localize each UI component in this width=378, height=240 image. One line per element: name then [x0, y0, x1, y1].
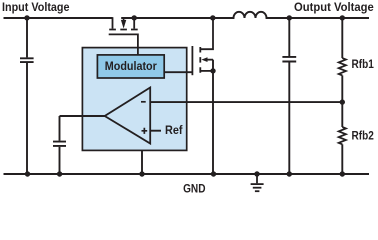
- node: C_out ground junction: [287, 171, 292, 176]
- transistor Q1 channel bars: [109, 29, 138, 31]
- capacitor C_in (input) branch wire upper: [26, 18, 28, 57]
- transistor Q1 gate plate and gate wire into Modulator: [109, 34, 138, 55]
- node: C_comp ground junction: [57, 171, 62, 176]
- transistor Q1 high-side PMOS: source stub: [112, 17, 114, 28]
- node: input capacitor tap on input rail: [24, 15, 29, 20]
- wire: input rail (Vin to Q1 source): [4, 17, 113, 19]
- capacitor C_comp lower wire: [59, 147, 61, 174]
- capacitor C_out plates: [282, 57, 296, 62]
- transistor Q2 source wire down to ground rail: [212, 60, 214, 174]
- node: Q2 source/body junction: [210, 68, 215, 73]
- transistor Q2 source contact: [200, 70, 213, 72]
- svg-text:GND: GND: [183, 183, 205, 196]
- resistor Rfb2 zigzag: [339, 127, 346, 144]
- node: output capacitor tap: [287, 15, 292, 20]
- wire: feedback to op-amp inverting input: [150, 101, 342, 103]
- wire: switch node rail with inductor L1 humps: [121, 12, 369, 18]
- ground symbol (earth): [254, 171, 259, 176]
- node: Rfb1 tap at output: [340, 15, 345, 20]
- resistor Rfb2 bottom wire: [341, 144, 343, 174]
- node: feedback divider junction: [340, 99, 345, 104]
- op-amp U1 non-inverting input marker: [142, 128, 148, 134]
- capacitor C_comp plates: [53, 142, 66, 146]
- transistor Q2 body arrow (points left): [201, 57, 207, 62]
- capacitor C_comp upper wire: [59, 116, 61, 141]
- transistor Q2 channel bars: [199, 47, 201, 73]
- Modulator block: [97, 55, 164, 78]
- wire: ground rail: [4, 173, 370, 175]
- resistor Rfb1 zigzag: [339, 58, 346, 75]
- svg-text:Rfb1: Rfb1: [352, 59, 375, 71]
- svg-text:Modulator: Modulator: [105, 60, 157, 73]
- wire: Rfb1 to Rfb2 with feedback tap: [341, 75, 343, 127]
- op-amp U1 inverting input marker: [141, 101, 146, 103]
- node: Rfb2 ground junction: [340, 171, 345, 176]
- node: IC ground junction: [139, 171, 144, 176]
- svg-text:Input Voltage: Input Voltage: [2, 2, 70, 14]
- node: C_in ground junction: [25, 171, 30, 176]
- svg-text:Output Voltage: Output Voltage: [294, 2, 374, 14]
- transistor Q1 drain stub: [133, 18, 135, 29]
- resistor Rfb1 top wire: [341, 18, 343, 58]
- node: switch node junction (Q2 drain): [210, 15, 215, 20]
- svg-text:Ref: Ref: [165, 125, 183, 137]
- capacitor C_out branch wire upper: [288, 18, 290, 56]
- wire: Ref to op-amp non-inverting input: [150, 130, 161, 132]
- capacitor C_in branch wire lower: [26, 63, 28, 174]
- node: Q2 source ground junction: [211, 171, 216, 176]
- wire: Modulator output to Q2 gate: [164, 71, 192, 73]
- capacitor C_out branch wire lower: [288, 62, 290, 174]
- transistor Q1 body arrow (points down): [123, 18, 125, 21]
- IC block (controller) background box: [82, 48, 186, 151]
- capacitor C_in plates: [20, 58, 34, 62]
- transistor Q2 drain contact and wire up to switch node: [200, 18, 213, 49]
- wire: op-amp output to compensation network: [60, 115, 105, 117]
- node: Q1 drain junction on rail: [132, 15, 137, 20]
- transistor Q2 low-side NMOS: gate bar: [191, 46, 193, 75]
- wire: IC ground stub: [141, 150, 143, 174]
- op-amp U1 (error amplifier) triangle: [105, 88, 151, 144]
- svg-text:Rfb2: Rfb2: [352, 130, 374, 142]
